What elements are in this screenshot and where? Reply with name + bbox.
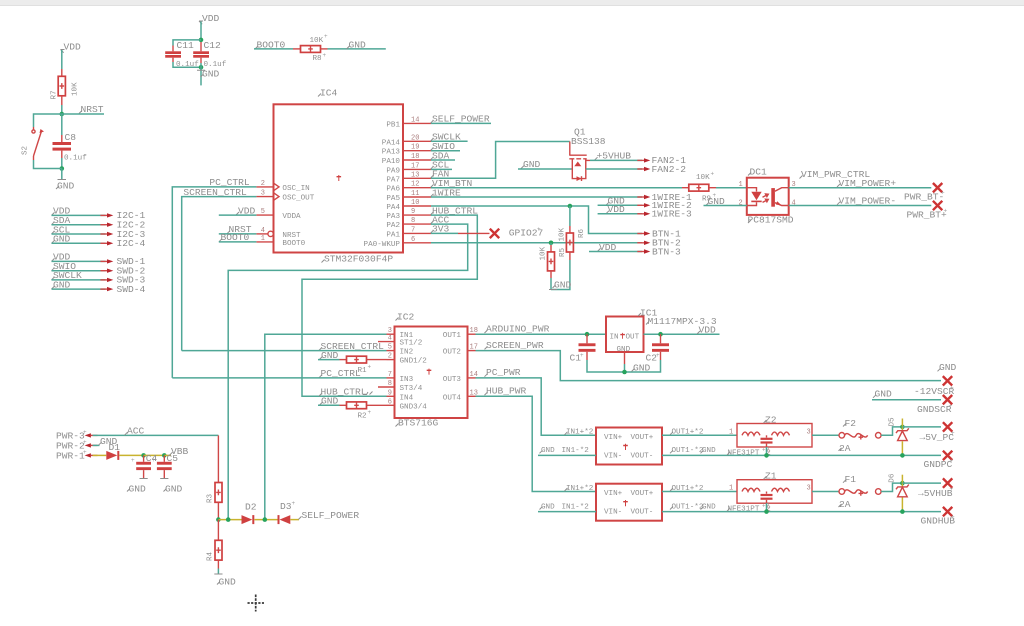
pin PWR-2 arrow xyxy=(56,439,98,452)
svg-text:D6: D6 xyxy=(889,473,897,483)
connector I2C: label GND xyxy=(52,234,71,245)
node Z1 gnd junction xyxy=(764,509,769,514)
wire PC_CTRL xyxy=(172,187,256,378)
wire 3V3 to X xyxy=(431,232,458,234)
label OUT1+*2 (PS2) xyxy=(670,485,704,493)
label HUB_CTRL xyxy=(431,205,479,216)
label -12VSCR xyxy=(914,385,955,397)
label VIM_BTN xyxy=(431,178,473,189)
svg-text:OUT1: OUT1 xyxy=(443,332,462,340)
svg-text:ST1/2: ST1/2 xyxy=(400,340,423,348)
label SCREEN_CTRL xyxy=(183,187,247,198)
svg-text:1: 1 xyxy=(739,181,743,189)
svg-text:OUT1-*2: OUT1-*2 xyxy=(672,447,704,455)
pin BTN-2 arrow xyxy=(637,238,681,249)
label NRST xyxy=(79,104,104,115)
wire OUT3 to module1 xyxy=(476,378,597,435)
zener D5 xyxy=(889,417,909,455)
wire GND to -12VSCR X xyxy=(872,399,941,401)
ground GND (C5) xyxy=(160,479,182,495)
svg-text:VIM_POWER-: VIM_POWER- xyxy=(839,196,897,207)
svg-text:GND: GND xyxy=(57,181,75,192)
pin IC4.18 PA10 xyxy=(382,153,431,166)
svg-text:PA10: PA10 xyxy=(382,158,401,166)
svg-text:R2: R2 xyxy=(358,413,368,421)
svg-text:GND: GND xyxy=(541,503,555,511)
svg-text:+: + xyxy=(711,171,715,178)
connector SWD: label GND xyxy=(52,279,71,290)
label GND (1WIRE-2) xyxy=(606,196,625,207)
svg-text:BOOT0: BOOT0 xyxy=(282,240,305,248)
node zener D6 top xyxy=(900,481,905,486)
capacitor C1 xyxy=(570,334,596,363)
svg-text:DC1: DC1 xyxy=(750,166,768,177)
svg-text:GND: GND xyxy=(875,388,893,399)
pin IC2.6 GND3/4 xyxy=(387,398,428,411)
wire VDD down xyxy=(200,22,202,40)
svg-text:+: + xyxy=(656,352,660,359)
wire OUT1 to IC1 IN xyxy=(476,333,607,335)
label FAN xyxy=(431,169,450,180)
resistor R4 xyxy=(207,520,223,569)
pin BTN-3 arrow xyxy=(637,246,681,257)
resistor R7 10K xyxy=(51,69,80,105)
pin X PWR_BT- xyxy=(904,183,945,203)
svg-text:OUT1+*2: OUT1+*2 xyxy=(672,485,704,493)
svg-text:5: 5 xyxy=(261,208,265,216)
capacitor C4 xyxy=(131,453,158,479)
svg-text:OSC_OUT: OSC_OUT xyxy=(282,195,314,203)
label GND IN1-*2 (PS2) xyxy=(540,503,590,511)
svg-text:R7: R7 xyxy=(51,90,59,99)
capacitor C12 0.1uf xyxy=(193,40,227,69)
node ACC route junction xyxy=(226,517,231,522)
svg-text:19: 19 xyxy=(411,144,419,152)
wire IC1 OUT xyxy=(644,333,720,335)
label PC_CTRL (IC2) xyxy=(319,368,361,379)
ground GND (IC1) xyxy=(632,362,651,373)
wire VDD to BTN-3 xyxy=(589,251,642,253)
zener D6 xyxy=(889,473,909,511)
wire PC_CTRL to IN3 xyxy=(172,377,386,379)
wire PS2 VOUT- rail (GNDHUB) xyxy=(662,511,941,513)
svg-text:D2: D2 xyxy=(245,502,257,513)
svg-text:VOUT+: VOUT+ xyxy=(631,490,654,498)
wire PS1 VOUT+ to Z2 xyxy=(662,434,737,436)
svg-text:VDDA: VDDA xyxy=(282,213,301,221)
opto DC1 PC817SMD xyxy=(739,166,796,225)
label ACC xyxy=(125,426,145,437)
wire VDD to 1WIRE-3 xyxy=(598,213,642,215)
pin 1WIRE-2 arrow xyxy=(637,200,692,211)
svg-text:+: + xyxy=(580,352,584,359)
wire F1 to 5VHUB node xyxy=(881,483,902,491)
pin FAN2-2 arrow xyxy=(637,164,686,175)
svg-text:6: 6 xyxy=(388,398,392,406)
wire Z2 pin2 to GNDPC rail xyxy=(766,447,768,455)
svg-text:→5VHUB: →5VHUB xyxy=(918,488,953,499)
svg-text:6: 6 xyxy=(411,236,415,244)
wire SCREEN_CTRL to IN2 xyxy=(182,350,387,352)
wire IN1 from D2/D3 node xyxy=(265,334,387,519)
wire DC1 pin3 to PWR_BT- xyxy=(789,187,932,189)
pin IC4.11 PA5 xyxy=(386,190,431,203)
svg-text:8: 8 xyxy=(388,380,392,388)
label SCREEN_CTRL (IC2) xyxy=(319,341,384,352)
pin IC2.4 ST1/2 xyxy=(378,335,423,348)
pin X PWR_BT+ xyxy=(907,201,948,221)
svg-text:NFE31PT: NFE31PT xyxy=(728,506,760,514)
svg-text:PWR_BT+: PWR_BT+ xyxy=(907,209,948,220)
svg-text:+: + xyxy=(944,207,948,214)
pin SWD-2 arrow xyxy=(100,266,145,277)
wire SWD-3 xyxy=(52,279,106,281)
pin X 5V_PC xyxy=(920,422,956,443)
wire SWD-2 xyxy=(52,270,106,272)
connector I2C: label VDD xyxy=(52,206,71,217)
pin IC4.7 PA1 xyxy=(386,226,431,239)
pin IC2.17 OUT2 xyxy=(443,344,478,357)
svg-text:IN1+*2: IN1+*2 xyxy=(566,429,594,437)
label SCL xyxy=(431,160,453,171)
ground GND (R5/R6) xyxy=(549,280,572,291)
wire C1 to GND rail xyxy=(587,360,625,372)
pin SWD-4 arrow xyxy=(100,284,145,295)
svg-text:3: 3 xyxy=(807,485,811,493)
svg-text:ARDUINO_PWR: ARDUINO_PWR xyxy=(486,324,550,335)
wire SWD-1 xyxy=(52,260,106,262)
wire PS2 VOUT+ to Z1 xyxy=(662,491,737,493)
svg-text:S2: S2 xyxy=(22,145,30,155)
pin IC4.6 PA0-WKUP xyxy=(364,236,431,249)
pin IC4.1 BOOT0 xyxy=(256,235,305,248)
pin IC4.2 OSC_IN xyxy=(256,180,309,193)
wire C2 to GND rail xyxy=(625,360,661,372)
svg-text:VOUT-: VOUT- xyxy=(631,509,654,517)
svg-text:OUT3: OUT3 xyxy=(443,376,462,384)
svg-text:10K: 10K xyxy=(696,174,710,182)
svg-text:GND: GND xyxy=(541,447,555,455)
svg-text:D1: D1 xyxy=(109,442,121,453)
svg-text:STM32F030F4P: STM32F030F4P xyxy=(324,254,393,265)
supply VDD (VDDA) xyxy=(219,205,257,216)
node IC1 GND junction xyxy=(622,370,627,375)
svg-text:+: + xyxy=(83,429,87,436)
wire C11 bottom rail xyxy=(173,62,201,67)
svg-text:VIN-: VIN- xyxy=(604,509,622,517)
wire S2 left branch xyxy=(34,114,62,127)
wire IC1 GND pin xyxy=(624,352,626,364)
resistor R6 10K xyxy=(559,206,587,260)
svg-text:GND: GND xyxy=(202,69,220,80)
pin IC4.10 PA4 xyxy=(386,199,431,212)
pin I2C-1 arrow xyxy=(100,210,145,221)
wire R6 to GND xyxy=(551,260,570,290)
wire PS2 VIN- xyxy=(538,511,596,513)
pin BTN-1 arrow xyxy=(637,228,681,239)
svg-text:OUT1-*2: OUT1-*2 xyxy=(672,503,704,511)
svg-text:D5: D5 xyxy=(889,417,897,427)
svg-text:PA13: PA13 xyxy=(382,149,401,157)
svg-text:IC4: IC4 xyxy=(320,88,338,99)
svg-text:NFE31PT: NFE31PT xyxy=(728,449,760,457)
pin IC2.14 OUT3 xyxy=(443,371,478,384)
label SELF_POWER xyxy=(431,114,492,125)
svg-text:+: + xyxy=(950,458,954,465)
ground GND (R4) xyxy=(214,569,236,588)
pin IC2.9 IN4 xyxy=(387,389,414,402)
svg-text:10K: 10K xyxy=(540,246,548,260)
wire NRST node down to C8 xyxy=(61,114,63,135)
svg-text:7: 7 xyxy=(388,371,392,379)
svg-text:R3: R3 xyxy=(207,493,215,503)
reg IC1 M1117MPX-3.3 xyxy=(606,308,717,354)
connector I2C: label SCL xyxy=(52,224,71,235)
svg-text:ACC: ACC xyxy=(127,426,145,437)
svg-text:VIN+: VIN+ xyxy=(604,434,623,442)
wire Z1 out to F1 xyxy=(812,491,839,493)
wire C8 to GND node xyxy=(61,158,63,169)
ground GND (C4) xyxy=(127,479,148,495)
wire 5VHUB to X xyxy=(902,482,941,484)
wire I2C-4 xyxy=(52,242,106,244)
label ACC xyxy=(431,214,450,225)
wire NRST label stub xyxy=(62,113,104,115)
supply VDD (IC1 out) xyxy=(697,325,716,336)
node PA0/R5 junction xyxy=(549,241,554,246)
wire F2 to 5V_PC node xyxy=(881,427,902,435)
wire GND to 1WIRE-2 xyxy=(598,204,642,206)
pin SWD-3 arrow xyxy=(100,275,145,286)
wire Z1 pin2 to GNDHUB rail xyxy=(766,503,768,511)
connector SWD: label SWIO xyxy=(52,261,77,272)
label SDA xyxy=(431,150,456,161)
svg-text:PC817SMD: PC817SMD xyxy=(748,215,794,226)
svg-text:GND1/2: GND1/2 xyxy=(400,358,428,366)
wire VDD to R7 xyxy=(61,50,63,69)
wire OUT4 to module2 xyxy=(476,396,597,491)
wire I2C-1 xyxy=(52,214,106,216)
label +5VHUB xyxy=(595,151,632,162)
wire DC1 pin4 to PWR_BT+ xyxy=(789,205,932,207)
svg-text:VDD: VDD xyxy=(64,42,82,53)
node R3/R4/D2 junction xyxy=(216,517,221,522)
label HUB_PWR xyxy=(485,386,527,397)
svg-text:4: 4 xyxy=(792,200,796,208)
svg-text:20: 20 xyxy=(411,134,419,142)
wire R7 to NRST node xyxy=(61,105,63,114)
capacitor C5 xyxy=(152,453,178,479)
svg-text:OUT1+*2: OUT1+*2 xyxy=(672,429,704,437)
svg-text:+: + xyxy=(368,364,372,371)
node C4 junction xyxy=(141,453,146,458)
svg-text:GND: GND xyxy=(617,346,631,354)
node PA4/R6 junction xyxy=(568,204,573,209)
svg-text:+: + xyxy=(368,409,372,416)
label 1WIRE xyxy=(431,187,462,198)
svg-text:GND: GND xyxy=(165,484,183,495)
svg-text:GNDSCR: GNDSCR xyxy=(917,404,952,415)
op IC2 BTS716G box xyxy=(395,312,468,429)
svg-text:13: 13 xyxy=(411,171,419,179)
svg-text:F2: F2 xyxy=(845,418,857,429)
svg-text:1: 1 xyxy=(261,235,265,243)
svg-text:VIN-: VIN- xyxy=(604,452,622,460)
diode D2 xyxy=(242,502,257,525)
pin IC2.2 GND1/2 xyxy=(387,353,428,366)
node Z2 gnd junction xyxy=(764,453,769,458)
connector SWD: label SWCLK xyxy=(52,270,83,281)
svg-text:IN1-*2: IN1-*2 xyxy=(562,447,590,455)
label GND (Q1 source) xyxy=(521,159,541,170)
capacitor C2 xyxy=(646,334,670,363)
svg-text:SELF_POWER: SELF_POWER xyxy=(432,114,490,125)
pin X GNDPC xyxy=(924,451,954,471)
pin PWR-1 arrow xyxy=(56,449,98,462)
resistor R5 10K xyxy=(540,243,568,278)
pin IC2.3 IN1 xyxy=(387,327,414,340)
svg-text:4: 4 xyxy=(388,335,392,343)
svg-text:PWR-1: PWR-1 xyxy=(56,450,85,461)
svg-text:R6: R6 xyxy=(578,228,586,238)
wire 1WIRE to 1WIRE-1 xyxy=(431,196,642,198)
svg-text:VDD: VDD xyxy=(202,13,220,24)
op IC4 STM32F030F4P box xyxy=(274,88,404,265)
svg-text:+: + xyxy=(950,486,954,493)
resistor R8 10K xyxy=(293,33,328,63)
wire I2C-2 xyxy=(52,224,106,226)
label GND (screen X) xyxy=(938,362,957,373)
label 3V3 xyxy=(431,224,450,235)
connector I2C: label SDA xyxy=(52,215,71,226)
wire D3 to SELF_POWER xyxy=(290,519,299,521)
resistor R2 xyxy=(318,402,387,421)
pin IC4.12 PA6 xyxy=(386,181,431,194)
pin I2C-4 arrow xyxy=(100,238,145,249)
svg-text:I2C-4: I2C-4 xyxy=(117,238,146,249)
wire GND to DC1 pin2 xyxy=(704,205,747,207)
label SWCLK xyxy=(431,132,468,143)
svg-text:-12VSCR: -12VSCR xyxy=(914,386,955,397)
label VIM_PWR_CTRL xyxy=(800,169,871,180)
label NRST xyxy=(219,224,257,235)
svg-text:IN: IN xyxy=(610,333,619,341)
svg-text:+: + xyxy=(83,449,87,456)
svg-text:PA14: PA14 xyxy=(382,139,401,147)
svg-text:PA1: PA1 xyxy=(386,231,400,239)
node C12 bottom xyxy=(199,65,204,70)
pin I2C-2 arrow xyxy=(100,220,145,231)
label ARDUINO_PWR xyxy=(485,324,550,335)
pin X GPIO27 xyxy=(490,226,543,239)
pin IC2.8 ST3/4 xyxy=(378,380,423,393)
label VBB xyxy=(164,446,188,457)
ground GND (C11/C12) xyxy=(197,63,220,85)
svg-text:D3: D3 xyxy=(280,501,292,512)
wire +5VHUB to FAN2-1 xyxy=(590,159,642,161)
pin X -12VSCR xyxy=(943,395,952,404)
svg-text:+: + xyxy=(950,385,954,392)
label BOOT0 xyxy=(219,232,257,243)
wire ACC routing xyxy=(228,224,468,519)
fuse F2 2A xyxy=(839,418,882,454)
svg-text:→5V_PC: →5V_PC xyxy=(920,432,955,443)
svg-text:SWD-4: SWD-4 xyxy=(117,284,146,295)
svg-text:GND: GND xyxy=(349,40,367,51)
pin IC4.19 PA13 xyxy=(382,144,431,157)
label PC_PWR xyxy=(485,367,521,378)
svg-text:VIM_POWER+: VIM_POWER+ xyxy=(839,178,897,189)
wire PWR-1 to D1 xyxy=(93,454,107,456)
svg-text:PA0-WKUP: PA0-WKUP xyxy=(364,241,401,249)
svg-text:GND: GND xyxy=(702,447,716,455)
wire FAN to Q1 gate xyxy=(431,142,570,179)
label GND (R2) xyxy=(320,396,339,407)
pin IC4.20 PA14 xyxy=(382,134,431,147)
module PS1 (PC) box xyxy=(596,428,662,465)
supply VDD (NRST pull-up) xyxy=(61,42,82,53)
label PC_CTRL xyxy=(209,177,250,188)
svg-text:+: + xyxy=(152,457,156,464)
label OUT1-*2 GND (PS2) xyxy=(670,503,716,511)
svg-text:PA6: PA6 xyxy=(386,186,400,194)
node zener D6 bottom xyxy=(900,509,905,514)
svg-text:C12: C12 xyxy=(204,40,222,51)
pin IC2.18 OUT1 xyxy=(443,327,478,340)
svg-text:2: 2 xyxy=(261,180,265,188)
wire BOOT0 to R8 xyxy=(254,48,293,50)
label VDD (1WIRE-3) xyxy=(606,204,625,215)
svg-text:OUT4: OUT4 xyxy=(443,394,462,402)
wire PWR-2 to GND xyxy=(93,444,100,446)
svg-text:IC2: IC2 xyxy=(397,312,415,323)
diode D3 xyxy=(278,500,296,524)
label SWIO xyxy=(431,141,461,152)
node C1 junction xyxy=(585,332,590,337)
svg-text:R5: R5 xyxy=(559,247,567,257)
svg-text:GND: GND xyxy=(219,577,237,588)
label GND (DC1 pin2) xyxy=(706,196,725,207)
svg-text:OSC_IN: OSC_IN xyxy=(282,185,309,193)
label VIM_POWER+ xyxy=(837,178,896,189)
wire R8 to GND xyxy=(328,48,386,50)
svg-text:11: 11 xyxy=(411,190,419,198)
wire HUB_CTRL routing xyxy=(302,215,477,396)
label IN1+*2 (PS1) xyxy=(565,429,594,437)
filter Z1 NFE31PT xyxy=(727,471,812,514)
node C2 junction xyxy=(658,332,663,337)
svg-text:VDD: VDD xyxy=(699,325,717,336)
pin X GND screen xyxy=(943,376,952,385)
pin IC4.14 PB1 xyxy=(386,116,431,129)
svg-text:GND: GND xyxy=(633,362,651,373)
label OUT1+*2 (PS1) xyxy=(670,429,704,437)
svg-text:HUB_PWR: HUB_PWR xyxy=(486,386,527,397)
svg-text:PA9: PA9 xyxy=(386,167,400,175)
svg-text:+: + xyxy=(537,226,541,233)
svg-text:GND: GND xyxy=(939,362,957,373)
svg-text:+: + xyxy=(131,457,135,464)
label GND (-12VSCR wire) xyxy=(873,388,892,399)
svg-text:10: 10 xyxy=(411,199,419,207)
svg-text:C8: C8 xyxy=(65,132,77,143)
svg-text:Z2: Z2 xyxy=(765,414,777,425)
svg-text:10K: 10K xyxy=(310,37,324,45)
filter Z2 NFE31PT xyxy=(727,414,812,457)
pin IC4.8 PA2 xyxy=(386,217,431,230)
svg-text:IN2: IN2 xyxy=(400,349,414,357)
ground GND (BOOT0) xyxy=(347,40,367,51)
